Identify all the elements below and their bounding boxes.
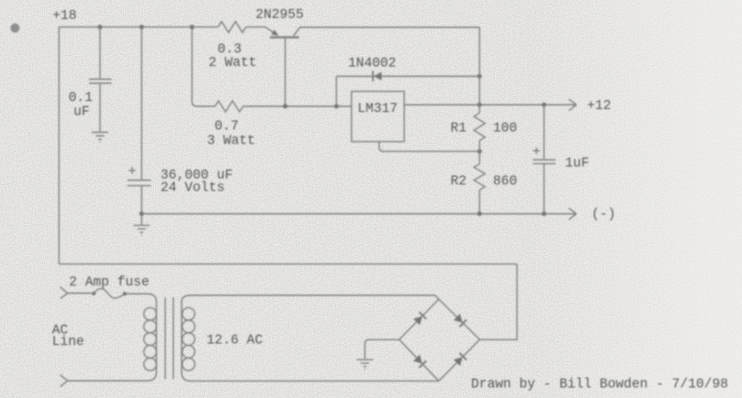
capacitor C2 36000uF plates	[127, 180, 151, 185]
wire AC top to fuse	[68, 292, 92, 294]
svg-text:2 Amp fuse: 2 Amp fuse	[69, 276, 149, 291]
node junction base at input line	[283, 104, 288, 109]
node junction negative bus at 1uF	[542, 212, 547, 217]
resistor R1	[474, 113, 485, 141]
fuse F1	[92, 292, 96, 296]
svg-text:1N4002: 1N4002	[348, 57, 396, 72]
wire bottom return horizontal	[59, 263, 517, 265]
capacitor C3 1uF polarity plus	[533, 148, 539, 154]
wire bridge negative to ground	[365, 340, 399, 359]
capacitor C2 36000uF bottom lead	[141, 186, 143, 214]
node junction top at 0.7 branch	[190, 25, 195, 30]
svg-text:uF: uF	[74, 105, 90, 120]
svg-text:2 Watt: 2 Watt	[209, 56, 257, 71]
transformer T1 core	[165, 298, 173, 380]
wire 0.7 branch drop	[192, 27, 215, 106]
wire R2 to negative bus	[479, 190, 481, 214]
wire 0.7 resistor to LM317 input	[243, 105, 352, 107]
diode D3 bridge top-right	[454, 314, 467, 327]
capacitor C1 0.1uF top lead	[99, 27, 101, 78]
node junction diode at rail	[477, 74, 482, 79]
capacitor C1 0.1uF bottom lead	[99, 83, 101, 131]
node junction adjust at divider	[477, 149, 482, 154]
capacitor C2 36000uF polarity plus	[129, 167, 136, 174]
capacitor C1 0.1uF plates	[89, 79, 112, 83]
svg-text:R1: R1	[451, 122, 467, 137]
node junction negative bus at C2	[139, 212, 144, 217]
wire secondary bottom to bridge	[182, 372, 439, 381]
transformer T1 secondary winding	[181, 301, 183, 373]
wire R1 to R2	[479, 141, 481, 164]
transistor Q1 collector	[294, 27, 301, 36]
diode D4 bridge bottom-left	[413, 355, 426, 368]
wire adjust pin	[379, 142, 479, 152]
diode D2 bridge top-left	[413, 312, 426, 325]
transformer T1 primary winding	[155, 301, 157, 373]
wire fuse to primary	[127, 294, 157, 302]
wire secondary top to bridge	[182, 295, 439, 302]
regulator U1 LM317 box	[352, 91, 405, 141]
svg-text:R2: R2	[451, 175, 467, 190]
ground for bridge	[357, 360, 373, 370]
node junction top at 0.1uF	[98, 25, 103, 30]
svg-text:Drawn by - Bill Bowden - 7/10/: Drawn by - Bill Bowden - 7/10/98	[471, 378, 728, 393]
ground for C1	[92, 132, 108, 142]
capacitor C3 1uF bottom lead	[543, 164, 545, 214]
arrow output +12	[569, 99, 577, 110]
svg-text:12.6 AC: 12.6 AC	[207, 334, 263, 349]
svg-text:LM317: LM317	[358, 102, 398, 117]
bridge diamond bottom-left leg	[399, 340, 439, 381]
capacitor C3 1uF top lead	[543, 105, 545, 159]
svg-text:24 Volts: 24 Volts	[161, 181, 225, 196]
AC input bottom chevron	[60, 375, 68, 387]
svg-text:0.1: 0.1	[69, 91, 93, 106]
wire top rail right segment	[300, 26, 480, 28]
svg-text:Line: Line	[52, 335, 84, 350]
svg-text:1uF: 1uF	[565, 157, 589, 172]
svg-text:860: 860	[493, 175, 517, 190]
wire filter cap rail	[141, 27, 143, 179]
node junction output at rail	[477, 103, 482, 108]
resistor R2	[474, 164, 485, 190]
wire transistor base lead	[284, 39, 286, 107]
svg-text:0.7: 0.7	[215, 120, 239, 135]
node junction negative bus at rail	[477, 212, 482, 217]
node junction top at filter cap rail	[139, 25, 144, 30]
bullet dot top-left	[10, 23, 19, 32]
resistor 0.7	[215, 101, 243, 112]
svg-text:+12: +12	[587, 99, 611, 114]
wire diode left leg	[335, 76, 337, 106]
svg-text:2N2955: 2N2955	[256, 8, 304, 23]
capacitor C3 1uF plates	[533, 160, 556, 164]
wire right rail upper	[479, 27, 481, 113]
diode D5 bridge bottom-right	[454, 353, 467, 366]
node junction diode leg at input line	[334, 104, 339, 109]
resistor 0.3	[218, 22, 246, 33]
wire primary bottom to AC	[68, 372, 157, 381]
svg-text:3 Watt: 3 Watt	[207, 134, 255, 149]
arrow output minus	[569, 208, 577, 219]
node junction output at 1uF	[542, 103, 547, 108]
wire top rail left segment	[59, 26, 218, 28]
svg-text:+18: +18	[53, 9, 77, 24]
bridge diamond top-right leg	[439, 299, 480, 339]
ground for C2	[133, 214, 149, 235]
diode D1 1N4002 cathode bar	[372, 71, 374, 81]
bridge diamond bottom-right leg	[439, 340, 480, 381]
bridge diamond top-left leg	[399, 299, 439, 339]
wire bridge positive riser	[480, 264, 517, 340]
svg-text:100: 100	[493, 122, 517, 137]
wire left rail	[58, 27, 60, 264]
transistor Q1 base bar	[270, 36, 299, 38]
svg-text:(-): (-)	[592, 208, 616, 223]
diode D1 1N4002 triangle	[374, 72, 382, 81]
wire LM317 output line	[404, 104, 571, 106]
transistor Q1 2N2955 emitter arrow	[271, 30, 278, 36]
wire negative bus	[142, 213, 571, 215]
wire diode top run	[336, 75, 479, 77]
AC input top chevron	[60, 287, 68, 299]
wire resistor to emitter	[246, 27, 277, 35]
